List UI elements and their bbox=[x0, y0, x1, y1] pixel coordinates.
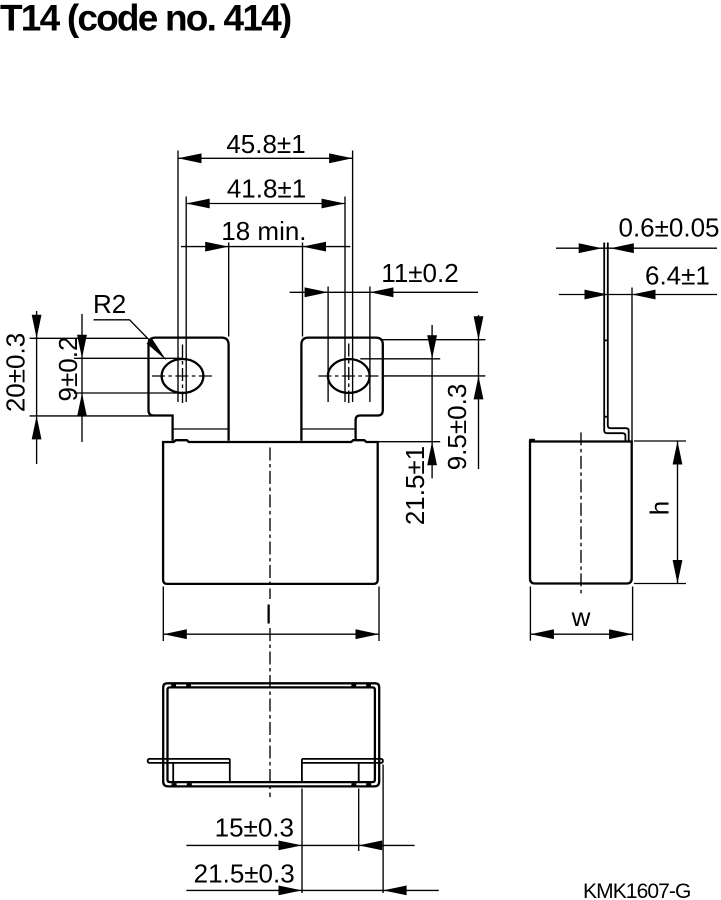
dimension 11±0.2 bbox=[290, 291, 478, 293]
dimension 6.4±1 bbox=[559, 294, 717, 296]
extension line hole-top left bbox=[74, 357, 183, 359]
side view: terminal strap outer line bbox=[604, 243, 625, 442]
extension line hole-top right bbox=[360, 358, 440, 360]
svg-text:11±0.2: 11±0.2 bbox=[381, 258, 458, 288]
svg-text:T14 (code no. 414): T14 (code no. 414) bbox=[0, 0, 291, 39]
dimension 18 min. bbox=[181, 246, 350, 248]
extension line 41.8 right bbox=[344, 197, 346, 403]
extension line 18min left bbox=[228, 243, 230, 337]
side body top-left seam tick bbox=[529, 439, 535, 442]
dimension 20±0.3 bbox=[36, 311, 38, 464]
bottom seam ticks right bbox=[351, 783, 356, 786]
right strap fold line bbox=[358, 763, 360, 782]
dimension 9.5±0.3 bbox=[478, 315, 480, 469]
body vertical centerline bbox=[269, 448, 271, 600]
left hole vertical centerline bbox=[182, 345, 184, 404]
dimension 0.6±0.05 bbox=[556, 247, 717, 249]
extension line 21.5 right (strap tip) bbox=[382, 765, 384, 894]
bottom view: right strap bbox=[302, 759, 383, 763]
front view: right terminal tab bbox=[301, 338, 382, 441]
extension line 6.4 right bbox=[631, 288, 633, 441]
top seam ticks right bbox=[351, 684, 356, 687]
svg-text:20±0.3: 20±0.3 bbox=[1, 333, 31, 412]
svg-text:45.8±1: 45.8±1 bbox=[226, 129, 305, 159]
svg-text:h: h bbox=[645, 501, 675, 515]
extension line tab-top left bbox=[30, 337, 148, 339]
right tab hole (11x9 oblong) bbox=[328, 359, 370, 393]
left hole horizontal centerline bbox=[152, 375, 214, 377]
dimension l (body length) bbox=[162, 587, 164, 642]
extension line tab-bottom left bbox=[30, 415, 153, 417]
extension line 15/21.5 shared left bbox=[301, 789, 303, 894]
left strap end/fold edge bbox=[229, 759, 231, 782]
svg-text:15±0.3: 15±0.3 bbox=[215, 813, 294, 843]
extension line tab-top right bbox=[381, 339, 486, 341]
front view: capacitor body bbox=[163, 440, 378, 584]
svg-text:41.8±1: 41.8±1 bbox=[227, 174, 306, 204]
side body centerline bbox=[580, 432, 582, 594]
svg-text:6.4±1: 6.4±1 bbox=[645, 261, 710, 291]
extension line 18min right bbox=[302, 243, 304, 337]
dimension 9±0.2 bbox=[81, 314, 83, 442]
side view: capacitor body bbox=[530, 442, 632, 584]
dimension h bbox=[634, 440, 686, 442]
dimension 21.5±1 bbox=[431, 325, 433, 478]
extension line 41.8 left bbox=[185, 197, 187, 403]
dimension 15±0.3 bbox=[186, 844, 414, 846]
svg-text:w: w bbox=[571, 602, 591, 632]
left tab seam line bbox=[173, 428, 229, 430]
right hole vertical centerline bbox=[348, 344, 350, 404]
left tab hole (11x9 oblong) bbox=[162, 359, 204, 393]
dimension 41.8±1 bbox=[186, 203, 345, 205]
R2 leader line bbox=[94, 320, 154, 344]
strap overlap tick upper bbox=[604, 339, 608, 341]
svg-text:l: l bbox=[266, 600, 272, 630]
dimension 21.5±0.3 bbox=[186, 889, 438, 891]
svg-text:9.5±0.3: 9.5±0.3 bbox=[442, 384, 472, 471]
bottom view: case outer outline bbox=[163, 683, 379, 786]
right hole horizontal centerline bbox=[318, 375, 385, 377]
front view: left terminal tab bbox=[149, 338, 229, 441]
side view: terminal strap inner line bbox=[608, 243, 629, 442]
left strap fold line bbox=[172, 763, 174, 782]
right strap left end edge bbox=[301, 759, 303, 782]
svg-text:9±0.2: 9±0.2 bbox=[53, 337, 83, 402]
extension line hole-center right bbox=[384, 375, 485, 377]
svg-text:21.5±0.3: 21.5±0.3 bbox=[194, 859, 295, 889]
svg-text:0.6±0.05: 0.6±0.05 bbox=[619, 213, 720, 243]
svg-text:KMK1607-G: KMK1607-G bbox=[583, 880, 690, 900]
extension line 11 left bbox=[327, 287, 329, 403]
extension line hole-bottom left bbox=[74, 392, 183, 394]
extension line 15 right bbox=[358, 789, 360, 852]
top seam ticks left bbox=[171, 684, 176, 687]
right tab seam line bbox=[301, 428, 355, 430]
extension line body-top right bbox=[379, 441, 441, 443]
extension line 45.8 left bbox=[177, 151, 179, 403]
svg-text:21.5±1: 21.5±1 bbox=[400, 446, 430, 525]
dimension w bbox=[529, 587, 531, 641]
svg-text:R2: R2 bbox=[93, 289, 126, 319]
bottom view: case inner outline bbox=[168, 687, 375, 782]
extension line 11 right bbox=[369, 287, 371, 403]
dimension 45.8±1 bbox=[178, 157, 353, 159]
bottom view: left strap bbox=[148, 759, 230, 763]
bottom seam ticks left bbox=[172, 783, 177, 786]
extension line 45.8 right bbox=[352, 151, 354, 403]
svg-text:18 min.: 18 min. bbox=[221, 216, 306, 246]
strap overlap tick lower bbox=[604, 416, 608, 418]
